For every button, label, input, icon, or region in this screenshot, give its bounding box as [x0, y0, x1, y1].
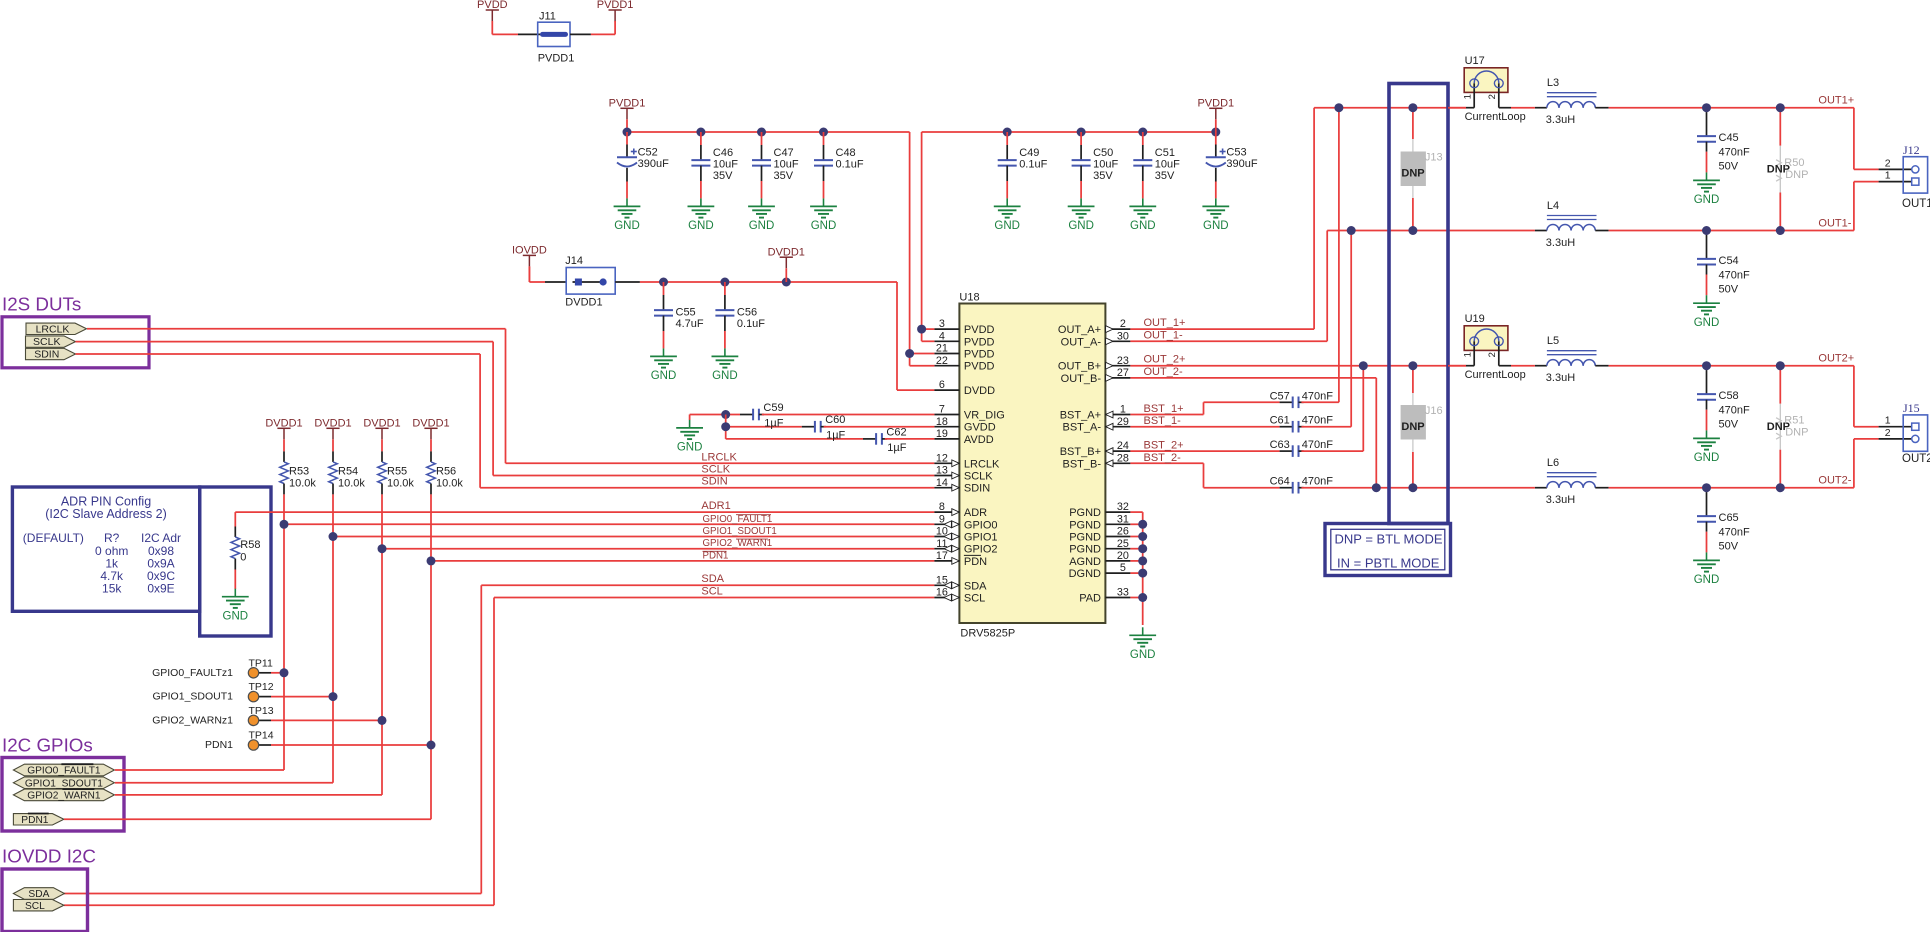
svg-text:OUT2-: OUT2-	[1818, 475, 1851, 487]
svg-text:AGND: AGND	[1069, 556, 1101, 568]
svg-text:C60: C60	[825, 414, 845, 426]
svg-text:470nF: 470nF	[1302, 476, 1333, 488]
node C57-OUT1+	[1334, 103, 1343, 112]
svg-text:15k: 15k	[102, 581, 122, 595]
svg-text:OUT_A+: OUT_A+	[1058, 324, 1101, 336]
svg-text:10.0k: 10.0k	[338, 477, 365, 489]
svg-text:4.7uF: 4.7uF	[676, 318, 704, 330]
svg-text:2: 2	[1885, 157, 1891, 169]
test point TP12	[259, 696, 271, 698]
jumper J14	[566, 268, 615, 295]
svg-text:0.1uF: 0.1uF	[1019, 159, 1047, 171]
svg-text:6: 6	[939, 379, 945, 391]
svg-text:20: 20	[1117, 550, 1129, 562]
svg-text:BST_1+: BST_1+	[1144, 403, 1184, 415]
svg-text:PGND: PGND	[1069, 544, 1101, 556]
connector J12	[1903, 157, 1927, 193]
pin 17 PDN	[934, 560, 959, 562]
svg-text:27: 27	[1117, 367, 1129, 379]
pin 9 GPIO0	[934, 523, 959, 525]
svg-text:C63: C63	[1270, 439, 1290, 451]
inductor L5 3.3uH	[1535, 365, 1547, 367]
svg-text:1µF: 1µF	[826, 430, 845, 442]
svg-text:R56: R56	[436, 466, 456, 478]
svg-text:28: 28	[1117, 452, 1129, 464]
svg-text:GPIO2_WARN1: GPIO2_WARN1	[27, 791, 101, 802]
svg-text:GND: GND	[1694, 574, 1720, 586]
svg-text:14: 14	[936, 477, 948, 489]
svg-text:L5: L5	[1547, 335, 1559, 347]
pin 2 OUT_A+	[1105, 328, 1130, 330]
ground	[626, 198, 628, 206]
wire VR_DIG	[690, 414, 740, 416]
node OUT2- corner	[1372, 483, 1381, 492]
svg-text:8: 8	[939, 501, 945, 513]
svg-text:0: 0	[240, 552, 246, 564]
svg-text:CurrentLoop: CurrentLoop	[1465, 111, 1526, 123]
svg-text:PVDD: PVDD	[964, 349, 995, 361]
svg-text:L3: L3	[1547, 77, 1559, 89]
jumper J13 DNP	[1412, 108, 1414, 139]
wire OUT_A+ to OUT1+	[1130, 328, 1314, 330]
wire SDA	[64, 893, 481, 895]
svg-text:C65: C65	[1719, 512, 1739, 524]
svg-text:GND: GND	[811, 220, 837, 232]
svg-text:50V: 50V	[1719, 541, 1739, 553]
svg-text:1: 1	[1463, 352, 1474, 357]
svg-text:1µF: 1µF	[887, 442, 906, 454]
svg-text:31: 31	[1117, 513, 1129, 525]
svg-text:C58: C58	[1719, 390, 1739, 402]
wire GPIO1_SDOUT1 tag	[115, 782, 333, 784]
svg-text:DRV5825P: DRV5825P	[960, 628, 1015, 640]
svg-text:1: 1	[1463, 94, 1474, 99]
svg-text:IN = PBTL MODE: IN = PBTL MODE	[1337, 556, 1440, 571]
svg-text:50V: 50V	[1719, 161, 1739, 173]
svg-text:SDA: SDA	[964, 580, 987, 592]
node J14-C56	[720, 278, 729, 287]
annotation box BTL/PBTL	[1389, 84, 1448, 524]
node PGND 20	[1138, 569, 1147, 578]
svg-text:0.1uF: 0.1uF	[836, 159, 864, 171]
svg-text:OUT_B-: OUT_B-	[1061, 373, 1102, 385]
svg-text:L4: L4	[1547, 200, 1559, 212]
node TP11 junction	[280, 668, 289, 677]
svg-text:BST_B+: BST_B+	[1060, 446, 1101, 458]
svg-text:GPIO1_SDOUT1: GPIO1_SDOUT1	[703, 526, 777, 537]
wire PVDD1 right bus	[922, 131, 1216, 133]
node R50 top	[1776, 103, 1785, 112]
node R50 bottom	[1776, 226, 1785, 235]
pin 20 AGND	[1105, 560, 1130, 562]
svg-text:OUT_2+: OUT_2+	[1144, 354, 1186, 366]
pin 11 GPIO2	[934, 548, 959, 550]
svg-text:DGND: DGND	[1069, 568, 1101, 580]
node bus-C48	[819, 128, 828, 137]
node PGND 18	[1138, 544, 1147, 553]
ground	[1006, 198, 1008, 206]
node J13 bottom	[1408, 226, 1417, 235]
svg-text:R58: R58	[240, 539, 260, 551]
wire OUT1- to J12	[1853, 182, 1855, 231]
svg-text:GND: GND	[223, 610, 249, 622]
svg-text:470nF: 470nF	[1719, 269, 1750, 281]
pin 31 PGND	[1105, 523, 1130, 525]
annotation box DNP/IN modes	[1325, 524, 1451, 576]
svg-text:SDA: SDA	[28, 889, 49, 900]
wire R56 vertical	[430, 494, 432, 819]
wire pin21 feed	[910, 353, 935, 355]
svg-text:PAD: PAD	[1079, 593, 1101, 605]
svg-text:GPIO0_FAULTz1: GPIO0_FAULTz1	[152, 667, 233, 679]
wire R53 vertical	[283, 494, 285, 770]
node C61-OUT1-	[1347, 226, 1356, 235]
pin 21 PVDD	[934, 353, 959, 355]
svg-text:10.0k: 10.0k	[436, 477, 463, 489]
svg-text:35V: 35V	[1093, 170, 1113, 182]
node PVDD pin3	[917, 325, 926, 334]
svg-text:C57: C57	[1270, 390, 1290, 402]
capacitor C48 0.1uF	[823, 132, 825, 145]
svg-text:SDA: SDA	[701, 573, 724, 585]
pin 7 VR_DIG	[934, 414, 959, 416]
svg-text:C62: C62	[886, 426, 906, 438]
svg-text:3.3uH: 3.3uH	[1546, 494, 1575, 506]
pin 5 DGND	[1105, 572, 1130, 574]
ground	[700, 198, 702, 206]
svg-text:10uF: 10uF	[774, 159, 799, 171]
svg-text:470nF: 470nF	[1719, 405, 1750, 417]
node TP12 junction	[329, 692, 338, 701]
svg-text:GND: GND	[1694, 194, 1720, 206]
svg-text:I2S DUTs: I2S DUTs	[2, 294, 81, 315]
wire PDN1 tag	[64, 818, 431, 820]
svg-text:GND: GND	[1130, 649, 1156, 661]
svg-text:470nF: 470nF	[1719, 527, 1750, 539]
svg-text:GPIO2_WARN1: GPIO2_WARN1	[703, 538, 773, 549]
node C63-OUT2+	[1359, 361, 1368, 370]
svg-text:21: 21	[936, 343, 948, 355]
pin 19 AVDD	[934, 438, 959, 440]
svg-text:GPIO1: GPIO1	[964, 532, 998, 544]
box IOVDD I2C	[2, 869, 88, 932]
svg-text:9: 9	[939, 513, 945, 525]
svg-text:GND: GND	[1130, 220, 1156, 232]
wire OUT1+ to J12	[1853, 108, 1855, 170]
node bus-C50	[1077, 128, 1086, 137]
svg-text:OUT2: OUT2	[1902, 453, 1930, 465]
svg-text:25: 25	[1117, 538, 1129, 550]
capacitor C45 470nF	[1706, 108, 1708, 111]
pin 23 OUT_B+	[1105, 365, 1130, 367]
wire GPIO2_WARN1 tag	[115, 794, 382, 796]
svg-text:BST_1-: BST_1-	[1144, 415, 1182, 427]
jumper U17 CurrentLoop	[1464, 68, 1508, 93]
node TP14 junction	[427, 741, 436, 750]
svg-text:C52: C52	[638, 147, 658, 159]
svg-text:C55: C55	[676, 307, 696, 319]
pin 16 SCL	[934, 597, 959, 599]
svg-text:OUT1+: OUT1+	[1818, 95, 1854, 107]
wire AVDD	[726, 438, 863, 440]
svg-text:390uF: 390uF	[638, 158, 669, 170]
svg-text:L6: L6	[1547, 457, 1559, 469]
svg-text:U19: U19	[1465, 313, 1485, 325]
svg-text:OUT_2-: OUT_2-	[1144, 366, 1183, 378]
svg-text:SCL: SCL	[25, 901, 45, 912]
svg-text:24: 24	[1117, 440, 1129, 452]
svg-text:PVDD: PVDD	[964, 324, 995, 336]
node R55-GPIO2	[378, 544, 387, 553]
svg-text:BST_B-: BST_B-	[1062, 458, 1101, 470]
inductor L6 3.3uH	[1535, 487, 1547, 489]
svg-text:10.0k: 10.0k	[289, 477, 316, 489]
svg-text:C51: C51	[1155, 147, 1175, 159]
svg-text:C59: C59	[763, 402, 783, 414]
svg-text:DNP = BTL MODE: DNP = BTL MODE	[1335, 532, 1443, 547]
pin 18 GVDD	[934, 426, 959, 428]
capacitor C53 390uF	[1215, 132, 1217, 145]
svg-text:TP11: TP11	[249, 657, 273, 669]
svg-text:470nF: 470nF	[1302, 390, 1333, 402]
svg-text:C49: C49	[1019, 147, 1039, 159]
svg-text:2: 2	[1487, 352, 1498, 357]
svg-text:390uF: 390uF	[1226, 158, 1257, 170]
svg-text:J11: J11	[539, 11, 556, 23]
svg-text:R51: R51	[1784, 415, 1804, 427]
wire PVDD1 left bus	[627, 131, 910, 133]
box I2C GPIOs	[2, 758, 124, 832]
svg-text:17: 17	[936, 550, 948, 562]
svg-text:PVDD: PVDD	[964, 361, 995, 373]
ground	[1706, 430, 1708, 438]
ground	[1080, 198, 1082, 206]
pin 6 DVDD	[934, 389, 959, 391]
inductor L4 3.3uH	[1535, 230, 1547, 232]
svg-text:LRCLK: LRCLK	[964, 458, 1000, 470]
svg-text:AVDD: AVDD	[964, 434, 994, 446]
wire OUT2- to J15	[1853, 439, 1855, 488]
wire R55 vertical	[381, 494, 383, 795]
wire BST_A+ / C57	[1130, 414, 1203, 416]
port PDN1	[13, 814, 64, 825]
wire OUT_B- to OUT2-	[1130, 377, 1376, 379]
capacitor C47 10uF	[761, 132, 763, 145]
svg-text:OUT_1-: OUT_1-	[1144, 329, 1183, 341]
svg-text:C54: C54	[1719, 255, 1739, 267]
svg-text:GPIO1_SDOUT1: GPIO1_SDOUT1	[152, 691, 233, 703]
pin 30 OUT_A-	[1105, 340, 1130, 342]
svg-text:PGND: PGND	[1069, 507, 1101, 519]
svg-text:7: 7	[939, 404, 945, 416]
svg-text:470nF: 470nF	[1302, 439, 1333, 451]
pin 10 GPIO1	[934, 536, 959, 538]
svg-text:GPIO2: GPIO2	[964, 544, 998, 556]
svg-text:35V: 35V	[1155, 170, 1175, 182]
svg-text:PVDD1: PVDD1	[538, 53, 575, 65]
svg-text:2: 2	[1885, 427, 1891, 439]
ground	[823, 198, 825, 206]
pin 32 PGND	[1105, 511, 1130, 513]
box I2S DUTs	[2, 317, 149, 368]
jumper J11	[538, 22, 570, 46]
svg-text:50V: 50V	[1719, 419, 1739, 431]
wire J14 to DVDD1 bus	[615, 281, 640, 283]
wire BST_B- / C64	[1130, 462, 1203, 464]
node R54-GPIO1	[329, 532, 338, 541]
svg-text:3.3uH: 3.3uH	[1546, 114, 1575, 126]
svg-text:22: 22	[936, 355, 948, 367]
svg-text:DVDD: DVDD	[964, 385, 995, 397]
node C54	[1702, 226, 1711, 235]
wire OUT2+ segment	[1448, 365, 1466, 367]
svg-text:TP13: TP13	[249, 705, 274, 717]
svg-text:19: 19	[936, 428, 948, 440]
capacitor C58 470nF	[1706, 366, 1708, 369]
ground	[1142, 627, 1144, 635]
port LRCLK	[26, 323, 87, 334]
svg-text:5: 5	[1120, 562, 1126, 574]
wire pin4 feed	[922, 340, 935, 342]
wire PGND bus	[1130, 511, 1142, 513]
svg-text:PDN: PDN	[964, 556, 987, 568]
svg-text:GND: GND	[712, 370, 738, 382]
ground	[234, 589, 236, 597]
resistor R56 10.0k	[430, 451, 432, 462]
svg-text:J15: J15	[1903, 401, 1920, 415]
node R53-GPIO0	[280, 520, 289, 529]
svg-text:DNP: DNP	[1401, 421, 1424, 433]
node J13 top	[1408, 103, 1417, 112]
node bus-C49	[1003, 128, 1012, 137]
svg-text:50V: 50V	[1719, 283, 1739, 295]
svg-text:DNP: DNP	[1785, 426, 1808, 438]
node bus-C51	[1138, 128, 1147, 137]
svg-text:GND: GND	[614, 220, 640, 232]
ground	[663, 348, 665, 356]
wire SCLK	[76, 341, 494, 343]
pin 24 BST_B+	[1105, 450, 1130, 452]
capacitor C54 470nF	[1706, 231, 1708, 234]
wire OUT1+ segment	[1448, 107, 1466, 109]
svg-text:OUT1: OUT1	[1902, 198, 1930, 210]
svg-text:C53: C53	[1226, 147, 1246, 159]
node bus-C53	[1211, 128, 1220, 137]
port GPIO2_WARN1	[13, 789, 114, 801]
pin 25 PGND	[1105, 548, 1130, 550]
port SCLK	[26, 336, 76, 347]
svg-text:10uF: 10uF	[1093, 159, 1118, 171]
svg-text:SCLK: SCLK	[964, 471, 993, 483]
svg-text:LRCLK: LRCLK	[36, 323, 70, 335]
svg-text:18: 18	[936, 416, 948, 428]
svg-text:2: 2	[1120, 318, 1126, 330]
svg-text:(DEFAULT): (DEFAULT)	[23, 531, 84, 545]
node J16 top	[1408, 361, 1417, 370]
svg-text:GND: GND	[688, 220, 714, 232]
node R56-PDN	[427, 556, 436, 565]
capacitor C55 4.7uF	[663, 282, 665, 295]
jumper U19 CurrentLoop	[1464, 326, 1508, 351]
svg-text:35V: 35V	[774, 170, 794, 182]
svg-text:1µF: 1µF	[764, 418, 783, 430]
svg-text:C46: C46	[713, 147, 733, 159]
svg-text:GND: GND	[677, 442, 703, 454]
node PAD	[1138, 593, 1147, 602]
wire GPIO0_FAULT1 tag	[115, 769, 284, 771]
svg-text:C48: C48	[836, 147, 856, 159]
ground	[1215, 198, 1217, 206]
svg-text:OUT_1+: OUT_1+	[1144, 317, 1186, 329]
capacitor C46 10uF	[700, 132, 702, 145]
wire pin3 feed	[922, 328, 935, 330]
svg-text:GND: GND	[749, 220, 775, 232]
svg-text:J16: J16	[1425, 405, 1443, 417]
svg-text:DNP: DNP	[1401, 168, 1424, 180]
node TP13 junction	[378, 716, 387, 725]
node GVDD	[721, 422, 730, 431]
svg-text:C50: C50	[1093, 147, 1113, 159]
svg-text:35V: 35V	[713, 170, 733, 182]
svg-text:C64: C64	[1270, 476, 1290, 488]
svg-text:4: 4	[939, 330, 945, 342]
node J14-C55	[659, 278, 668, 287]
capacitor C52 390uF	[626, 132, 628, 145]
pin 33 PAD	[1105, 597, 1130, 599]
pin 28 BST_B-	[1105, 462, 1130, 464]
svg-text:C47: C47	[774, 147, 794, 159]
wire OUT1- segment	[1609, 230, 1854, 232]
pin 26 PGND	[1105, 536, 1130, 538]
pin 12 LRCLK	[934, 462, 959, 464]
wire ADR1	[234, 512, 236, 526]
svg-text:R53: R53	[289, 466, 309, 478]
wire GPIO1	[333, 536, 934, 538]
wire LRCLK	[87, 328, 506, 330]
svg-text:OUT1-: OUT1-	[1818, 218, 1851, 230]
node R51 top	[1776, 361, 1785, 370]
svg-text:BST_A-: BST_A-	[1062, 422, 1101, 434]
node PGND 16	[1138, 520, 1147, 529]
svg-text:J13: J13	[1425, 151, 1443, 163]
node J14-DVDD1	[782, 278, 791, 287]
svg-text:PDN1: PDN1	[205, 739, 233, 751]
svg-text:GPIO0: GPIO0	[964, 519, 998, 531]
svg-text:GVDD: GVDD	[964, 422, 996, 434]
pin 3 PVDD	[934, 328, 959, 330]
svg-text:(I2C Slave Address 2): (I2C Slave Address 2)	[45, 507, 167, 521]
svg-text:10uF: 10uF	[1155, 159, 1180, 171]
svg-text:I2C GPIOs: I2C GPIOs	[2, 735, 93, 756]
pin 15 SDA	[934, 584, 959, 586]
capacitor C50 10uF	[1080, 132, 1082, 145]
svg-text:SDIN: SDIN	[964, 483, 990, 495]
svg-text:10uF: 10uF	[713, 159, 738, 171]
svg-text:SDIN: SDIN	[701, 476, 727, 488]
svg-text:GPIO2_WARNz1: GPIO2_WARNz1	[152, 714, 233, 726]
svg-text:C61: C61	[1270, 415, 1290, 427]
svg-text:3.3uH: 3.3uH	[1546, 237, 1575, 249]
node bus-C52	[623, 128, 632, 137]
port SCL	[13, 900, 64, 911]
wire GPIO0	[284, 523, 934, 525]
svg-text:OUT2+: OUT2+	[1818, 353, 1854, 365]
svg-text:GND: GND	[1694, 452, 1720, 464]
svg-text:0x9E: 0x9E	[147, 581, 174, 595]
svg-text:SCL: SCL	[701, 585, 722, 597]
svg-text:J14: J14	[565, 255, 583, 267]
svg-text:470nF: 470nF	[1302, 415, 1333, 427]
